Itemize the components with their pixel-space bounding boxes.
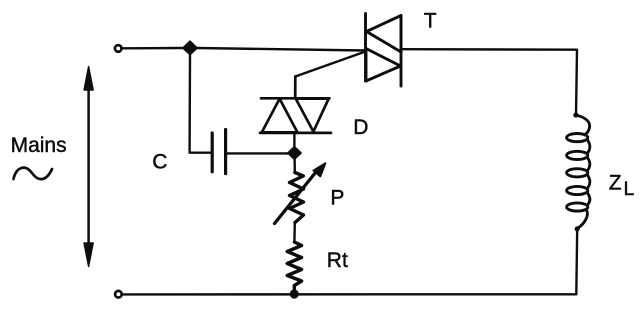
wire node B up to diac <box>293 133 295 148</box>
potentiometer P <box>275 163 326 223</box>
wire node B down to potentiometer <box>293 158 296 173</box>
wire node A down to capacitor <box>190 54 211 153</box>
wire coil to bottom-right corner and bottom rail <box>123 229 577 295</box>
svg-text:P: P <box>330 187 344 210</box>
capacitor C <box>212 130 225 174</box>
svg-text:Z: Z <box>609 172 622 195</box>
svg-text:C: C <box>152 150 167 173</box>
wire capacitor to node B <box>227 152 290 154</box>
wire node A to triac <box>196 48 365 51</box>
diac D <box>260 77 331 133</box>
svg-text:L: L <box>624 178 635 200</box>
terminal bottom-left <box>115 291 122 298</box>
node A junction <box>182 41 197 55</box>
wire gate diac to triac <box>295 52 365 77</box>
svg-text:Mains: Mains <box>11 134 67 157</box>
wire potentiometer to Rt <box>293 223 296 243</box>
resistor Rt <box>287 242 301 290</box>
svg-text:D: D <box>353 116 368 139</box>
svg-text:Rt: Rt <box>327 249 348 272</box>
inductor ZL <box>567 112 590 231</box>
wire triac to top-right corner and down <box>403 49 578 115</box>
ac symbol <box>14 168 53 179</box>
terminal top-left <box>115 45 122 52</box>
node B junction <box>287 146 301 159</box>
wire terminal to node A <box>122 47 184 50</box>
node C junction bottom <box>290 289 299 298</box>
mains arrow <box>84 67 93 267</box>
svg-text:T: T <box>424 10 437 33</box>
triac T <box>366 14 402 87</box>
